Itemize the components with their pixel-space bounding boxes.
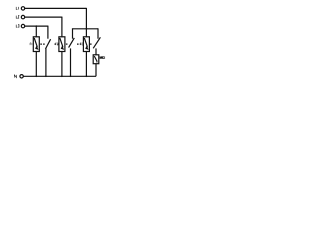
- wire arrester F3 bottom lead: [85, 52, 87, 77]
- label L2: [16, 16, 19, 19]
- wire L1 horizontal: [25, 7, 87, 9]
- junction dot rail F3: [86, 75, 88, 77]
- wire L1 drop to arrester F3: [85, 8, 87, 37]
- wire L2 drop to arrester F2: [61, 17, 63, 38]
- wire N rail: [23, 75, 96, 77]
- wire switch3 top lead: [97, 28, 99, 38]
- arrester F1 arrow: [34, 38, 37, 47]
- switch2 blade: [69, 38, 75, 48]
- junction dot rail switch2: [70, 75, 72, 77]
- label F3: [80, 43, 83, 45]
- wire switch1 top lead: [47, 26, 49, 39]
- signal contact MK1 box: [93, 55, 99, 64]
- junction dot rail F1: [35, 75, 37, 77]
- junction dot rail switch1: [45, 75, 47, 77]
- wire MK1 bottom lead: [95, 64, 97, 77]
- mechanical link dashes F3 to switch3: [90, 43, 93, 45]
- wire signal header: [73, 28, 99, 30]
- mechanical link dashes F1 to switch1: [40, 43, 45, 45]
- label MK1: [100, 56, 105, 59]
- wire arrester F1 bottom lead: [35, 52, 37, 77]
- arrester F1 box: [33, 37, 39, 52]
- junction dot rail F2: [61, 75, 63, 77]
- label F1: [30, 43, 32, 45]
- wire switch2 top lead: [72, 28, 74, 38]
- switch1 blade: [46, 39, 51, 49]
- label N: [14, 75, 16, 78]
- terminal L2: [21, 15, 24, 18]
- switch3 bottom lead upper: [95, 48, 97, 54]
- label F2: [56, 43, 59, 45]
- junction dot L3 to F1: [35, 25, 37, 27]
- terminal N: [20, 75, 23, 78]
- signal contact MK1 arrow: [94, 56, 97, 62]
- mechanical link dashes switch1 to F2: [55, 43, 59, 45]
- mechanical link dashes F2 to switch2: [66, 43, 68, 45]
- arrester F2 arrow: [60, 38, 63, 47]
- arrester F2 box: [59, 37, 65, 52]
- junction dot L1 to header: [86, 28, 88, 30]
- wire arrester F1 top lead: [35, 26, 37, 37]
- wire L3 horizontal: [25, 25, 48, 27]
- switch2 bottom lead: [70, 48, 72, 76]
- terminal L1: [21, 7, 24, 10]
- arrester F3 arrow: [84, 38, 87, 47]
- arrester F3 box: [83, 37, 89, 52]
- mechanical link dashes switch2 to F3: [77, 43, 83, 45]
- wire arrester F2 bottom lead: [61, 52, 63, 77]
- terminal L3: [21, 24, 24, 27]
- switch3 blade: [93, 37, 100, 48]
- label L1: [16, 7, 18, 10]
- switch1 bottom lead: [45, 48, 47, 76]
- wire L2 horizontal: [25, 16, 62, 18]
- label L3: [16, 25, 19, 28]
